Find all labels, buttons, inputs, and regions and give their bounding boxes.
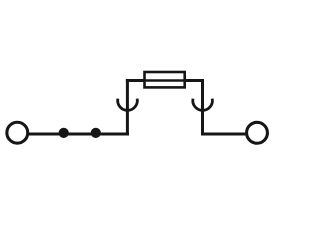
terminal circle (left) — [7, 122, 28, 143]
wire: left vertical riser — [126, 79, 129, 136]
wire: bottom-left horizontal from left terminal to left vertical — [17, 133, 129, 136]
terminal circle (right) — [247, 122, 268, 143]
wire: bottom-right horizontal to right terminal — [201, 133, 257, 136]
wire: fuse element line — [145, 79, 184, 82]
junction dot (right) — [91, 128, 101, 138]
wire: top horizontal through fuse — [126, 79, 204, 82]
fuse F1 — [145, 72, 185, 87]
test-disconnect socket (left) — [118, 99, 138, 111]
junction dot (left) — [59, 128, 69, 138]
wire: right vertical drop — [201, 79, 204, 136]
test-disconnect socket (right) — [193, 99, 213, 111]
